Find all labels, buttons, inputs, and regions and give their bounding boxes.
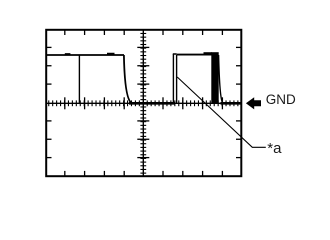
center vertical axis <box>142 30 144 176</box>
waveform ringing bar <box>211 52 218 103</box>
GND arrow <box>246 97 261 109</box>
vertical axis minor ruler ticks <box>140 33 146 173</box>
waveform noise bump 1 <box>65 53 71 55</box>
leader line to *a <box>177 77 266 147</box>
svg-text:GND: GND <box>266 92 296 107</box>
vertical axis division ticks <box>137 47 149 157</box>
waveform glitch drop <box>78 55 80 103</box>
horizontal axis minor ruler ticks <box>49 100 238 106</box>
waveform settle curve <box>219 55 223 103</box>
waveform noise bump 2 <box>107 53 115 55</box>
waveform rising edge 2 <box>176 55 178 103</box>
waveform high segment pulse 2 <box>177 54 212 56</box>
waveform high segment pulse 1 <box>46 54 124 56</box>
waveform rising edge 1 <box>172 54 174 103</box>
waveform low segment 1 <box>129 102 175 105</box>
waveform falling edge pulse 1 <box>124 55 132 103</box>
graticule edge ticks bottom <box>65 171 223 176</box>
graticule edge ticks top <box>65 30 223 35</box>
graticule edge ticks left <box>47 47 52 157</box>
horizontal axis division ticks <box>65 97 223 109</box>
waveform low segment 2 <box>221 102 241 105</box>
center horizontal axis <box>46 102 241 104</box>
waveform rising edge top nub <box>173 53 177 55</box>
oscilloscope graticule border <box>46 30 241 176</box>
svg-text:*a: *a <box>267 140 282 157</box>
waveform high thickened end <box>204 52 213 54</box>
graticule edge ticks right <box>236 47 241 157</box>
